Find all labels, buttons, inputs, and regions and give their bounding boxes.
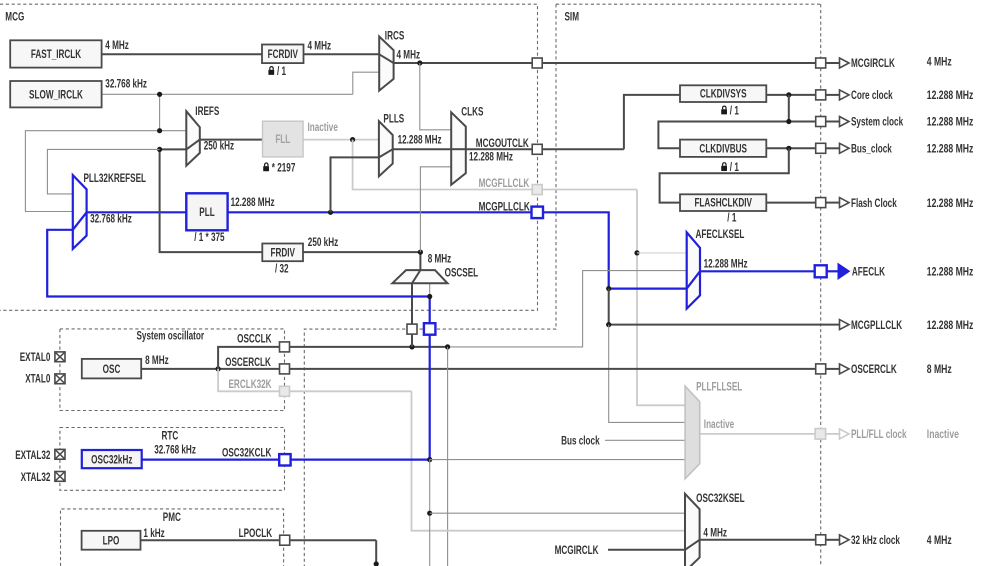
svg-text:MCGIRCLK: MCGIRCLK bbox=[555, 545, 599, 558]
wire LPO output LPOCLK bbox=[141, 540, 377, 566]
svg-text:12.288 MHz: 12.288 MHz bbox=[927, 198, 974, 211]
junction Bus clock bbox=[786, 146, 791, 151]
wire OSCSEL output 8MHz up bbox=[303, 252, 420, 270]
block FAST_IRCLK bbox=[10, 40, 101, 67]
wire FLASHCLKDIV output Flash clock bbox=[766, 202, 815, 204]
svg-text:PLL32KREFSEL: PLL32KREFSEL bbox=[84, 172, 147, 185]
wire port to arrow MCGIRCLK bbox=[826, 62, 840, 64]
MCG module dashed border bbox=[0, 4, 538, 310]
lock FLL bbox=[263, 163, 269, 171]
svg-text:LPO: LPO bbox=[103, 535, 120, 548]
svg-text:4 MHz: 4 MHz bbox=[927, 56, 952, 69]
junction node 32k to IREFS bbox=[157, 128, 162, 133]
block PLL bbox=[186, 193, 227, 230]
svg-text:OSCCLK: OSCCLK bbox=[237, 333, 272, 346]
wire OSC to OSCSEL mux input bbox=[411, 283, 413, 347]
svg-text:250 kHz: 250 kHz bbox=[204, 140, 234, 153]
wire port to arrow Bus_clock bbox=[826, 147, 840, 149]
svg-text:CLKS: CLKS bbox=[461, 106, 483, 119]
svg-text:* 2197: * 2197 bbox=[272, 162, 296, 175]
wire OSC32KSEL output 4MHz bbox=[700, 539, 816, 541]
junction OSC32KCLK bbox=[427, 457, 432, 462]
wire port to arrow OSCERCLK bbox=[826, 368, 840, 370]
wire port to arrow Flash Clock bbox=[826, 202, 840, 204]
wire OSCCLK thin to AFECLKSEL input bbox=[448, 271, 687, 347]
wire ERCLK32K inactive net bbox=[218, 369, 685, 531]
svg-text:OSC32KSEL: OSC32KSEL bbox=[696, 493, 744, 506]
svg-text:Bus_clock: Bus_clock bbox=[851, 143, 892, 156]
lock FCRDIV bbox=[268, 67, 274, 75]
svg-text:OSC32kHz: OSC32kHz bbox=[91, 454, 132, 467]
junction OSC32K at OSCSEL stub bbox=[427, 294, 432, 299]
port output Flash Clock bbox=[816, 198, 826, 208]
svg-text:12.288 MHz: 12.288 MHz bbox=[927, 90, 974, 103]
svg-text:SIM: SIM bbox=[565, 11, 580, 24]
wire MCGOUTCLK from CLKS to CLKDIVSYS bbox=[466, 95, 680, 149]
port output System clock bbox=[816, 117, 826, 127]
svg-text:OSCERCLK: OSCERCLK bbox=[225, 357, 271, 370]
svg-text:MCGOUTCLK: MCGOUTCLK bbox=[476, 138, 529, 151]
mux PLLS bbox=[379, 121, 393, 176]
svg-text:PLL/FLL clock: PLL/FLL clock bbox=[851, 429, 907, 442]
wire Core to System clock row bbox=[658, 95, 815, 148]
arrow output MCGPLLCLK bbox=[840, 320, 850, 330]
wire OSC output 8MHz bbox=[141, 368, 816, 370]
mux OSCSEL bbox=[392, 270, 447, 283]
lock CLKDIVBUS bbox=[721, 163, 727, 171]
port OSC32KCLK on RTC border bbox=[279, 454, 290, 465]
wire OSC32KCLK blue net bbox=[47, 230, 430, 460]
port output Core clock bbox=[816, 90, 826, 100]
port MCGPLLCLK on MCG border bbox=[532, 207, 544, 219]
mux PLLFLLSEL inactive bbox=[685, 386, 700, 479]
svg-text:32.768 kHz: 32.768 kHz bbox=[90, 213, 132, 226]
wire PLL32KREFSEL output 32.768kHz to PLL bbox=[87, 211, 187, 213]
port output AFECLK blue bbox=[815, 265, 827, 277]
svg-text:AFECLKSEL: AFECLKSEL bbox=[696, 229, 745, 242]
wire MCGIRCLK 4MHz from IRCS to SIM output bbox=[394, 62, 816, 64]
port output PLL/FLL clock bbox=[815, 429, 826, 440]
svg-text:12.288 MHz: 12.288 MHz bbox=[927, 320, 974, 333]
wire PLLFLLSEL output inactive bbox=[700, 433, 815, 435]
svg-text:SLOW_IRCLK: SLOW_IRCLK bbox=[29, 89, 83, 102]
svg-text:4 MHz: 4 MHz bbox=[703, 527, 727, 540]
SIM module dashed border bbox=[304, 4, 820, 566]
wire MCGIRCLK down to CLKS input bbox=[420, 63, 451, 130]
svg-text:Bus clock: Bus clock bbox=[561, 435, 600, 448]
wire SLOW_IRCLK 32.768kHz net bbox=[25, 72, 379, 211]
svg-text:EXTAL32: EXTAL32 bbox=[15, 449, 50, 462]
wire OSCSEL to CLKS input bbox=[420, 167, 451, 252]
pin EXTAL32 bbox=[55, 449, 65, 459]
junction PLL output to PLLS branch bbox=[328, 210, 333, 215]
wire FAST_IRCLK to FCRDIV bbox=[102, 53, 262, 55]
wire port to arrow PLL/FLL clock bbox=[826, 433, 840, 435]
wire PLLS output to CLKS bbox=[393, 148, 452, 150]
svg-text:/ 1: / 1 bbox=[730, 105, 739, 118]
divider FLASHCLKDIV bbox=[680, 194, 766, 211]
port output MCGIRCLK bbox=[816, 58, 826, 68]
wire PLL output MCGPLLCLK blue bbox=[228, 212, 687, 288]
svg-text:250 kHz: 250 kHz bbox=[308, 236, 338, 249]
wire OSC32KCLK to PLLFLLSEL input bbox=[430, 459, 685, 461]
svg-text:OSC32KCLK: OSC32KCLK bbox=[222, 447, 272, 460]
wire FLL output inactive to PLLS bbox=[303, 139, 379, 141]
svg-text:12.288 MHz: 12.288 MHz bbox=[469, 151, 513, 164]
arrow output Bus_clock bbox=[840, 143, 850, 153]
svg-text:4 MHz: 4 MHz bbox=[927, 535, 952, 548]
svg-text:8 MHz: 8 MHz bbox=[428, 253, 452, 266]
svg-text:XTAL0: XTAL0 bbox=[25, 373, 50, 386]
wire MCGPLLCLK down to PLLFLLSEL input bbox=[609, 325, 685, 423]
junction Core clock bbox=[786, 92, 791, 97]
svg-text:OSC: OSC bbox=[103, 363, 121, 376]
arrow output OSCERCLK bbox=[840, 364, 850, 374]
svg-text:12.288 MHz: 12.288 MHz bbox=[927, 117, 974, 130]
svg-text:MCG: MCG bbox=[5, 11, 24, 24]
port output Bus_clock bbox=[816, 143, 826, 153]
wire port to arrow 32 kHz clock bbox=[826, 539, 840, 541]
svg-text:32.768 kHz: 32.768 kHz bbox=[105, 78, 147, 91]
mux PLL32KREFSEL bbox=[73, 175, 87, 249]
junction System clock bbox=[786, 119, 791, 124]
port OSCERCLK on System oscillator border bbox=[280, 364, 290, 374]
divider FRDIV bbox=[262, 244, 303, 262]
svg-text:PLL: PLL bbox=[199, 207, 214, 220]
svg-text:12.288 MHz: 12.288 MHz bbox=[231, 196, 275, 209]
svg-text:IREFS: IREFS bbox=[195, 106, 219, 119]
wire MCGPLLCLK down to output row bbox=[609, 289, 840, 325]
svg-text:MCGFLLCLK: MCGFLLCLK bbox=[479, 178, 530, 191]
mux CLKS bbox=[451, 112, 466, 185]
block LPO bbox=[82, 531, 141, 550]
arrow output MCGIRCLK bbox=[840, 58, 850, 68]
pin EXTAL0 bbox=[55, 352, 65, 362]
System oscillator dashed border bbox=[60, 329, 285, 411]
svg-text:RTC: RTC bbox=[162, 430, 179, 443]
svg-text:Core clock: Core clock bbox=[851, 90, 893, 103]
wire MCGIRCLK stub to OSC32KSEL bbox=[608, 549, 685, 551]
mux IRCS bbox=[379, 37, 393, 91]
svg-text:FLASHCLKDIV: FLASHCLKDIV bbox=[694, 197, 752, 210]
PMC dashed border bbox=[61, 509, 284, 566]
block FLL inactive bbox=[263, 121, 304, 157]
divider CLKDIVSYS bbox=[680, 85, 766, 102]
port LPOCLK on PMC border bbox=[280, 535, 290, 545]
wire port to arrow System clock bbox=[826, 121, 840, 123]
svg-text:Inactive: Inactive bbox=[927, 429, 959, 442]
svg-text:System clock: System clock bbox=[851, 116, 903, 129]
svg-text:PMC: PMC bbox=[163, 512, 182, 525]
pin XTAL0 bbox=[55, 374, 65, 384]
svg-text:/ 1: / 1 bbox=[730, 162, 739, 175]
svg-text:32.768 kHz: 32.768 kHz bbox=[154, 444, 196, 457]
svg-text:XTAL32: XTAL32 bbox=[21, 472, 51, 485]
svg-text:PLLFLLSEL: PLLFLLSEL bbox=[696, 381, 742, 394]
junction MCGPLLCLK at AFECLKSEL branch bbox=[606, 286, 611, 291]
svg-text:LPOCLK: LPOCLK bbox=[239, 527, 273, 540]
wire to OSC32KSEL input1 bbox=[430, 512, 685, 514]
svg-text:12.288 MHz: 12.288 MHz bbox=[927, 266, 974, 279]
svg-text:Inactive: Inactive bbox=[308, 122, 339, 135]
arrow output Flash Clock bbox=[840, 198, 850, 208]
junction OSC32K to OSC32KSEL bbox=[427, 511, 432, 516]
svg-text:OSCERCLK: OSCERCLK bbox=[851, 364, 897, 377]
arrow output 32 kHz clock bbox=[840, 535, 850, 545]
junction OSC output bbox=[216, 366, 221, 371]
svg-text:/ 32: / 32 bbox=[275, 263, 289, 276]
wire FCRDIV to IRCS mux bbox=[304, 53, 380, 55]
svg-text:12.288 MHz: 12.288 MHz bbox=[398, 134, 442, 147]
port MCGOUTCLK on MCG border bbox=[532, 144, 542, 154]
wire FRDIV output 250kHz to IREFS bbox=[160, 149, 263, 252]
divider FCRDIV bbox=[262, 45, 304, 64]
port output 32 kHz clock bbox=[816, 535, 826, 545]
svg-text:4 MHz: 4 MHz bbox=[105, 40, 129, 53]
svg-text:1 kHz: 1 kHz bbox=[143, 527, 164, 540]
svg-text:System oscillator: System oscillator bbox=[137, 330, 205, 343]
wire OSC32KCLK down to OSC32KSEL bbox=[429, 460, 431, 566]
wire Bus clock to FLASHCLKDIV bbox=[660, 148, 789, 202]
svg-text:/ 1: / 1 bbox=[727, 212, 736, 225]
svg-text:MCGPLLCLK: MCGPLLCLK bbox=[479, 201, 531, 214]
wire FRDIV output to PLL32KREFSEL input bbox=[47, 149, 159, 194]
junction LPOCLK bottom bbox=[374, 561, 379, 566]
svg-text:12.288 MHz: 12.288 MHz bbox=[927, 143, 974, 156]
mux AFECLKSEL bbox=[687, 232, 700, 308]
svg-text:12.288 MHz: 12.288 MHz bbox=[704, 258, 748, 271]
pin XTAL32 bbox=[55, 472, 65, 482]
svg-text:4 MHz: 4 MHz bbox=[397, 49, 421, 62]
svg-text:/ 1 * 375: / 1 * 375 bbox=[194, 232, 225, 245]
wire MCGFLLCLK branch to AFECLKSEL input bbox=[637, 252, 687, 254]
wire AFECLKSEL output blue AFECLK bbox=[700, 270, 815, 272]
svg-text:CLKDIVBUS: CLKDIVBUS bbox=[699, 143, 747, 156]
port OSCCLK on System oscillator border bbox=[280, 342, 290, 352]
junction FLL output branch bbox=[350, 137, 355, 142]
svg-text:4 MHz: 4 MHz bbox=[308, 40, 332, 53]
wire MCGFLLCLK inactive net bbox=[353, 140, 685, 406]
wire CLKDIVSYS output Core clock bbox=[766, 94, 815, 96]
lock CLKDIVSYS bbox=[721, 106, 727, 114]
wire Bus clock stub to PLLFLLSEL bbox=[605, 439, 685, 441]
port ERCLK32K on System oscillator border bbox=[280, 386, 290, 396]
wire OSC32K stub up to OSCSEL input bbox=[429, 283, 431, 296]
svg-text:FCRDIV: FCRDIV bbox=[268, 49, 298, 62]
junction FRDIV output bbox=[157, 147, 162, 152]
svg-text:AFECLK: AFECLK bbox=[852, 266, 886, 279]
svg-text:OSCSEL: OSCSEL bbox=[445, 267, 479, 280]
mux OSC32KSEL bbox=[685, 494, 700, 566]
wire CLKDIVBUS output Bus clock bbox=[766, 147, 815, 149]
junction on SLOW_IRCLK at x159.6 bbox=[157, 92, 162, 97]
svg-text:EXTAL0: EXTAL0 bbox=[20, 352, 51, 365]
junction MCGPLLCLK output row bbox=[606, 322, 611, 327]
arrow output System clock bbox=[840, 117, 850, 127]
wire AFECLK port to arrow bbox=[827, 270, 838, 272]
arrow output PLL/FLL clock bbox=[840, 429, 850, 439]
block OSC32kHz bbox=[82, 450, 142, 468]
wire OSCCLK row bbox=[218, 347, 448, 369]
divider CLKDIVBUS bbox=[680, 140, 766, 157]
svg-text:32 kHz clock: 32 kHz clock bbox=[851, 535, 900, 548]
RTC dashed border bbox=[60, 428, 285, 491]
port output OSCERCLK bbox=[816, 364, 826, 374]
wire IREFS output 250kHz to FLL bbox=[200, 139, 263, 141]
svg-text:/ 1: / 1 bbox=[277, 66, 286, 79]
junction MCGFLLCLK to AFECLKSEL bbox=[634, 250, 639, 255]
junction OSCSEL output bbox=[418, 250, 423, 255]
junction OSCCLK to OSCSEL bbox=[409, 344, 414, 349]
block SLOW_IRCLK bbox=[10, 81, 101, 107]
svg-text:MCGPLLCLK: MCGPLLCLK bbox=[851, 319, 903, 332]
port OSC feed on SIM border bbox=[407, 324, 417, 334]
svg-text:ERCLK32K: ERCLK32K bbox=[229, 379, 273, 392]
svg-text:PLLS: PLLS bbox=[383, 113, 404, 126]
wire port to arrow Core clock bbox=[826, 94, 840, 96]
arrow output Core clock bbox=[840, 90, 850, 100]
svg-text:MCGIRCLK: MCGIRCLK bbox=[851, 58, 895, 71]
svg-text:IRCS: IRCS bbox=[385, 30, 405, 43]
svg-text:Flash Clock: Flash Clock bbox=[851, 197, 897, 210]
svg-text:CLKDIVSYS: CLKDIVSYS bbox=[700, 88, 747, 101]
svg-text:8 MHz: 8 MHz bbox=[145, 355, 169, 368]
junction OSCCLK down branch bbox=[445, 344, 450, 349]
junction MCGIRCLK branch bbox=[417, 60, 422, 65]
svg-text:FAST_IRCLK: FAST_IRCLK bbox=[31, 49, 82, 62]
svg-text:Inactive: Inactive bbox=[704, 419, 735, 432]
wire PLL to PLLS mux input bbox=[331, 157, 379, 212]
wire OSCCLK down offscreen bbox=[447, 347, 449, 566]
mux IREFS bbox=[186, 111, 200, 166]
svg-text:FLL: FLL bbox=[275, 134, 290, 147]
arrow output AFECLK blue filled bbox=[838, 264, 850, 280]
svg-text:FRDIV: FRDIV bbox=[270, 247, 295, 260]
port OSC32K feed on SIM border bbox=[424, 323, 436, 335]
block OSC bbox=[82, 359, 141, 379]
port MCGIRCLK on MCG border bbox=[532, 58, 542, 68]
svg-text:8 MHz: 8 MHz bbox=[927, 364, 952, 377]
port MCGFLLCLK on MCG border bbox=[532, 185, 542, 195]
